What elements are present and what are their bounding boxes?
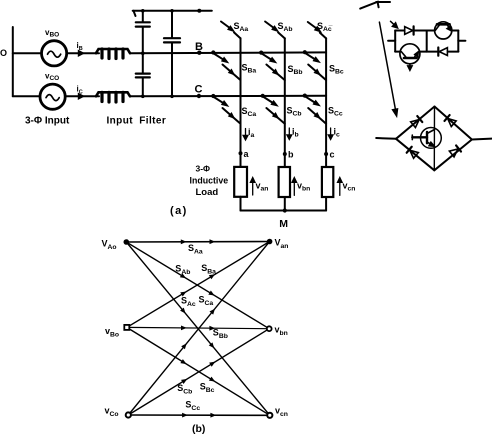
transistor Q1 (lower-left) <box>400 44 420 71</box>
svg-text:B: B <box>195 41 203 53</box>
graph edge C-a <box>128 242 269 416</box>
wire phase C middle <box>65 95 99 97</box>
svg-text:O: O <box>0 48 7 58</box>
edge direction arrows <box>180 239 217 417</box>
svg-text:SCc: SCc <box>328 106 343 118</box>
switch SAa <box>221 22 241 39</box>
bridge diode D6 (bottom-right) <box>449 145 461 157</box>
node b <box>283 152 287 156</box>
graph node Vcn <box>267 413 272 418</box>
filter branch 1 (caps to rail) <box>136 11 150 97</box>
wire phase B to node B and row B <box>130 51 326 54</box>
node a <box>239 151 243 155</box>
bottom rail to node M <box>241 210 327 212</box>
diode D1 (upper-left) <box>405 26 414 34</box>
node C <box>197 94 201 98</box>
current arrow iC <box>75 94 84 99</box>
svg-text:ib: ib <box>292 127 299 139</box>
current arrow ia <box>243 129 248 141</box>
pointer arrow to diode bridge <box>379 22 397 116</box>
svg-text:VAo: VAo <box>102 239 117 252</box>
svg-text:b: b <box>288 150 294 160</box>
graph edge B-c <box>127 327 270 415</box>
inductor LC <box>96 92 130 102</box>
current arrow iB <box>75 51 84 56</box>
wire below Rb <box>284 197 286 211</box>
upper cell right terminal <box>458 40 465 42</box>
upper cell frame <box>395 31 458 52</box>
bridge right terminal <box>472 138 492 141</box>
junction dot on rail <box>197 9 201 13</box>
svg-text:c: c <box>330 150 335 160</box>
output column a <box>240 38 242 167</box>
bridge diode D3 (top-left) <box>411 116 423 128</box>
switch SAc <box>308 22 326 38</box>
svg-text:3-Φ: 3-Φ <box>196 163 211 173</box>
switch SCb <box>261 94 285 124</box>
voltage arrow van <box>250 178 255 196</box>
inductor LB <box>96 49 130 59</box>
label 3-phi inductive load <box>190 163 229 198</box>
filter branch 2 (cap) <box>164 11 180 97</box>
svg-text:vCo: vCo <box>105 406 119 419</box>
graph edge B-a <box>127 242 270 328</box>
svg-text:(a): (a) <box>170 205 188 217</box>
pointer arrow to upper switch cell <box>391 21 398 28</box>
wire below Rc <box>325 197 327 211</box>
rail end tick <box>134 11 136 16</box>
svg-text:Load: Load <box>196 187 219 198</box>
svg-text:van: van <box>256 181 269 193</box>
switch SCc <box>303 94 326 124</box>
svg-text:SCb: SCb <box>287 106 302 118</box>
transistor Q2 (upper-right) <box>435 22 452 39</box>
switch SBb <box>259 51 285 81</box>
svg-text:vCO: vCO <box>45 71 59 82</box>
graph edge A-a <box>126 241 269 244</box>
svg-text:ia: ia <box>248 127 255 139</box>
svg-text:SAb: SAb <box>175 264 190 277</box>
diode D2 (lower-right) <box>438 48 447 56</box>
svg-text:SBb: SBb <box>288 64 303 76</box>
svg-text:SAa: SAa <box>188 243 203 256</box>
bridge diamond <box>396 107 472 171</box>
output column b <box>284 38 286 167</box>
svg-text:SCa: SCa <box>242 106 257 118</box>
svg-text:a: a <box>244 149 250 159</box>
svg-text:iC: iC <box>77 85 83 96</box>
svg-text:SAb: SAb <box>278 21 293 33</box>
node O vertical bus <box>12 27 14 96</box>
svg-text:SBc: SBc <box>329 64 344 76</box>
svg-text:SAc: SAc <box>181 296 196 309</box>
graph edge B-b <box>127 327 269 328</box>
svg-text:SBb: SBb <box>213 328 228 341</box>
source vBO <box>42 41 67 66</box>
bridge left terminal <box>376 137 396 140</box>
wire phase C to node C and row C <box>130 95 326 98</box>
wire below Ra <box>240 197 242 211</box>
load resistor Ra <box>234 167 247 197</box>
svg-text:ic: ic <box>334 127 341 139</box>
load resistor Rc <box>322 167 333 197</box>
bridge center link <box>433 107 435 171</box>
svg-text:Van: Van <box>275 238 289 251</box>
voltage arrow vbn <box>292 178 297 196</box>
wire phase B middle <box>67 52 99 54</box>
svg-text:vbn: vbn <box>297 181 310 193</box>
svg-text:SAa: SAa <box>234 21 249 33</box>
junction dots filter <box>141 9 174 98</box>
current arrow ib <box>287 128 292 140</box>
graph node VAo <box>124 239 130 245</box>
graph node VBo <box>124 325 129 330</box>
svg-text:(b): (b) <box>192 423 205 434</box>
svg-text:SBa: SBa <box>242 63 257 75</box>
transistor Q3 (bridge center) <box>412 127 441 148</box>
wire phase C left <box>13 95 40 97</box>
top rail phase A <box>133 10 212 12</box>
svg-text:vcn: vcn <box>275 406 288 419</box>
graph edge C-c <box>128 414 269 416</box>
node B <box>197 51 201 55</box>
svg-text:vbn: vbn <box>275 325 288 338</box>
svg-text:M: M <box>279 218 288 230</box>
svg-text:Inductive: Inductive <box>190 176 229 186</box>
switch SBc <box>303 50 326 80</box>
svg-text:SBa: SBa <box>201 263 216 276</box>
source vCO <box>40 84 65 109</box>
bridge diode D4 (top-right) <box>444 115 456 127</box>
svg-text:SBc: SBc <box>200 382 215 395</box>
graph edge A-b <box>126 242 269 329</box>
load resistor Rb <box>279 167 290 197</box>
graph node Van <box>267 239 273 245</box>
svg-text:vcn: vcn <box>343 181 356 193</box>
svg-text:SCa: SCa <box>199 295 214 308</box>
svg-text:iB: iB <box>77 41 83 52</box>
svg-text:Input Filter: Input Filter <box>107 116 167 127</box>
current arrow ic <box>328 128 333 140</box>
switch SBa <box>211 50 240 80</box>
svg-text:3-Φ Input: 3-Φ Input <box>25 116 70 127</box>
graph edge A-c <box>126 242 269 415</box>
node c <box>324 152 328 156</box>
svg-text:C: C <box>195 84 203 96</box>
svg-text:vBO: vBO <box>45 28 59 39</box>
switch SAb <box>265 22 285 39</box>
svg-text:SCc: SCc <box>185 400 200 413</box>
node M <box>283 208 287 212</box>
svg-text:vBo: vBo <box>105 326 119 339</box>
voltage arrow vcn <box>338 178 343 196</box>
generic switch symbol <box>360 2 390 9</box>
graph node VCo <box>126 412 131 417</box>
svg-text:SCb: SCb <box>177 383 192 396</box>
output column c <box>325 38 327 167</box>
upper cell left terminal <box>388 40 395 42</box>
bridge diode D5 (bottom-left) <box>407 147 419 159</box>
switch SCa <box>211 94 240 124</box>
wire phase B left <box>13 52 42 54</box>
graph edge C-b <box>128 329 269 415</box>
graph node Vbn <box>267 326 272 331</box>
